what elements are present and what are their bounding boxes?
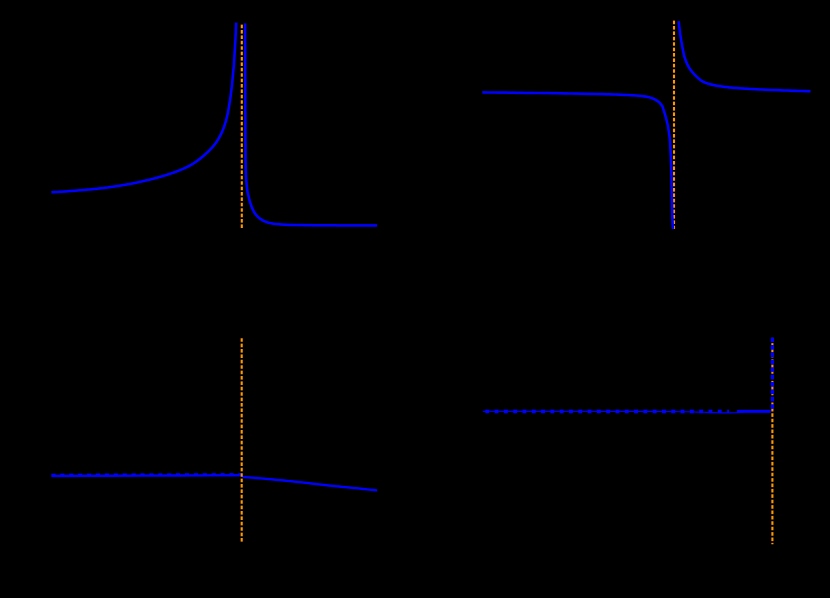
blue curve TL right branch <box>245 23 377 225</box>
blue curve TL left branch <box>51 23 236 193</box>
panel 1 (top-left): index of refraction resonance curve <box>51 23 377 229</box>
panel 2 (top-right) <box>482 21 810 229</box>
blue thin solid line BR <box>483 411 771 413</box>
blue curve TR right branch <box>679 21 811 91</box>
blue thick dashed vertical BR <box>771 338 774 411</box>
blue thick dashed horizontal BR <box>485 410 729 414</box>
orange dashed asymptote TL <box>241 25 243 229</box>
panel 3 (bottom-left) <box>51 338 377 543</box>
panel 4 (bottom-right) <box>483 338 773 545</box>
blue solid curve BL before asymptote <box>51 474 241 477</box>
blue dashed overlay BL (left of asymptote) <box>51 473 241 476</box>
blue thick solid segment BR near asymptote <box>737 410 771 413</box>
orange dashed asymptote BL <box>241 338 243 543</box>
orange dashed asymptote TR <box>673 21 675 229</box>
orange dashed asymptote BR <box>771 338 773 545</box>
blue curve TR left branch <box>482 92 673 229</box>
blue solid curve BL after asymptote <box>243 477 378 491</box>
